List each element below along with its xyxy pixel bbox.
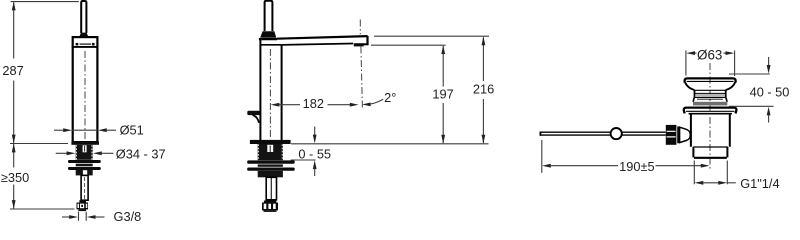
svg-text:Ø34 - 37: Ø34 - 37 (116, 146, 166, 161)
shadow band (693, 102, 727, 106)
dimension 216 line (482, 37, 484, 143)
nut facet middle dot (81, 205, 83, 207)
neck thin line (697, 98, 723, 100)
dimension G1 arrow right-pointing (718, 181, 727, 185)
svg-text:0 - 55: 0 - 55 (298, 146, 331, 161)
dimension O51 line left (54, 129, 65, 131)
thread sides (693, 147, 727, 157)
spout top extension line (374, 35, 489, 37)
dimension 0-55 upper arrowhead down (313, 135, 317, 144)
dimension O51 arrow left-pointing (98, 128, 107, 132)
attachment cone (680, 127, 691, 142)
dimension O34-37 arrow right-pointing (67, 151, 76, 155)
aerator block (354, 43, 364, 46)
spout outlet extension line (371, 44, 446, 46)
svg-text:Ø63: Ø63 (697, 47, 722, 62)
mounting plane line (291, 143, 489, 145)
nut facet 3 (273, 204, 276, 209)
supply nut (77, 203, 89, 210)
dimension 190 line left (550, 165, 618, 167)
angle leader 2 deg (365, 99, 384, 104)
dimension O63 line (692, 52, 729, 54)
handle rod flare (80, 33, 89, 37)
svg-text:G3/8: G3/8 (114, 209, 142, 222)
svg-text:190±5: 190±5 (619, 159, 655, 174)
shank center slot (83, 145, 87, 152)
dimension O51 line across body (72, 129, 98, 131)
threaded shank (258, 144, 283, 160)
dimension 197 arrow down (441, 135, 445, 144)
rim inner line (687, 80, 734, 82)
drain centerline (709, 63, 711, 171)
nut facet right (86, 204, 88, 208)
dimension 0-55 lower arrow shaft (314, 169, 316, 177)
svg-text:2°: 2° (384, 90, 396, 105)
dimension >=350 arrow up (12, 144, 16, 153)
supply pipe (81, 175, 88, 200)
knurled knob (666, 125, 677, 145)
supply pipe centerline (84, 177, 86, 199)
nut facet middle (80, 204, 84, 209)
body centerline (269, 49, 271, 139)
supply pipe middle line (270, 178, 272, 199)
dimension 216 arrow down (482, 135, 486, 144)
lower block (76, 170, 93, 176)
spout top edge (277, 36, 368, 39)
dimension 40-50 lower extension line (729, 105, 774, 107)
dimension O34-37 line left (56, 152, 67, 154)
dimension 182 line right (328, 104, 351, 106)
joystick handle rod (265, 1, 273, 31)
faucet body (73, 37, 98, 142)
flange top (684, 108, 737, 114)
dimension 197 line (442, 46, 444, 143)
bell concave right (726, 82, 736, 90)
dimension 40-50 lower arrow shaft (768, 115, 770, 123)
nut facet 2 (268, 204, 271, 209)
dimension G3/8 arrow left-pointing (87, 215, 96, 219)
dimension 182 line left (279, 104, 301, 106)
aerator axis above spout (359, 20, 361, 35)
dimension 40-50 lower arrowhead up (767, 107, 771, 116)
svg-text:Ø51: Ø51 (120, 122, 144, 137)
svg-text:182: 182 (303, 96, 324, 111)
dimension 190 arrow left-pointing (542, 164, 551, 168)
lower block (258, 171, 283, 178)
body centerline (84, 51, 86, 139)
bell concave left (685, 82, 695, 90)
dimension 0-55 lower arrowhead up (313, 160, 317, 169)
dimension 40-50 upper extension line (729, 73, 770, 75)
dimension 197 arrow up (441, 45, 445, 54)
angle leader arrowhead (362, 103, 371, 107)
cap groove (80, 43, 91, 45)
dimension 40-50 upper arrow shaft (768, 57, 770, 66)
neck flare right (726, 98, 727, 102)
nut tail (78, 209, 86, 211)
dimension 287 line (13, 2, 15, 143)
dimension O34-37 line right (101, 152, 114, 154)
side lever (247, 111, 259, 115)
body right edge (281, 45, 283, 142)
svg-text:≥350: ≥350 (1, 170, 29, 185)
spacer block (76, 164, 93, 167)
neck mid line (695, 92, 726, 94)
base flange (250, 140, 291, 144)
svg-text:G1"1/4: G1"1/4 (740, 176, 779, 191)
spout tip bottom (363, 43, 369, 45)
svg-text:40 - 50: 40 - 50 (750, 84, 790, 99)
neck shaded band (695, 94, 725, 97)
mounting plane extension line (10, 143, 68, 145)
dimension 182 arrow right-pointing at axis (350, 103, 359, 107)
dimension O63 arrow right-pointing (726, 51, 735, 55)
flange bottom line (689, 113, 732, 115)
dimension >=350 arrow down (12, 200, 16, 209)
side lever curve (253, 115, 259, 123)
dimension G3/8 line right (96, 216, 105, 218)
dimension >=350 line (13, 144, 15, 209)
spout underside (281, 44, 353, 45)
shank center slot (267, 145, 273, 152)
dimension 190 arrow right-pointing (701, 164, 710, 168)
nut facet 1 (264, 204, 267, 209)
knob collar (677, 127, 680, 144)
dimension 190 line right (656, 165, 702, 167)
dimension G3/8 line left (62, 216, 70, 218)
pop-up rod (540, 132, 666, 135)
plug cap rim (685, 78, 736, 82)
dimension 0-55 upper arrow shaft (314, 127, 316, 136)
flange inner line (686, 110, 734, 112)
rod ball joint (611, 128, 622, 139)
drain body tube (691, 114, 730, 147)
body left edge (259, 39, 261, 141)
dimension 287 arrow down (12, 135, 16, 144)
neck flare left (693, 98, 694, 102)
neck top line (695, 89, 726, 91)
threaded shank (76, 145, 93, 160)
dimension 287 extension line (top) (11, 1, 79, 3)
body cap seam (261, 44, 281, 46)
washer plate 2 (247, 168, 295, 171)
shank thread dots (76, 145, 92, 159)
svg-text:216: 216 (473, 82, 494, 97)
neck lower line (695, 97, 726, 99)
nut tail (264, 210, 277, 212)
dimension O34-37 arrow left-pointing (93, 151, 102, 155)
rod left cap (539, 132, 541, 136)
dimension 190 extension line (541, 140, 543, 173)
supply nut (262, 203, 278, 211)
dimension 182 arrow left-pointing at centerline (271, 103, 280, 107)
neck sides (695, 90, 726, 97)
supply pipe (266, 177, 276, 200)
washer plate 2 (68, 167, 101, 170)
spout tip right edge (366, 36, 368, 45)
cap groove end blocks (76, 43, 79, 46)
dimension G1 stub to label (727, 182, 736, 184)
svg-text:197: 197 (432, 87, 453, 102)
dimension 287 arrow up (12, 2, 16, 11)
dimension 216 arrow up (482, 36, 486, 45)
body cap bottom line (72, 46, 99, 48)
thread bottom (694, 157, 727, 159)
dimension O63 arrow left-pointing (686, 51, 695, 55)
dimension G1 arrow left-pointing (695, 181, 704, 185)
handle flare (260, 31, 276, 38)
dimension G1 line (703, 182, 720, 184)
aerator axis below spout (2 deg tilt) (361, 47, 363, 108)
dimension G1 extension lines (694, 161, 727, 185)
thread top line (693, 146, 728, 148)
joystick handle rod (81, 1, 86, 33)
nut facet left (78, 204, 80, 208)
base flange (71, 141, 99, 144)
pipe coupling band (264, 201, 276, 203)
pipe coupling band (79, 200, 86, 202)
svg-text:287: 287 (2, 63, 23, 78)
dimension O51 line right (106, 129, 117, 131)
dimension G3/8 ticks (79, 212, 87, 221)
handle base line (259, 38, 277, 40)
shank thread dots (258, 144, 282, 159)
knob slits (667, 131, 676, 137)
dimension 40-50 upper arrowhead down (767, 65, 771, 74)
deck underside line (291, 159, 316, 161)
dimension O63 extension lines (686, 51, 735, 77)
washer plate 1 (247, 160, 295, 163)
dimension G3/8 arrow right-pointing (69, 215, 78, 219)
washer plate 1 (68, 160, 101, 163)
hose end extension line (10, 208, 75, 210)
spacer block (258, 164, 283, 166)
lower block slot (83, 170, 87, 175)
dimension O51 arrow right-pointing (63, 128, 72, 132)
